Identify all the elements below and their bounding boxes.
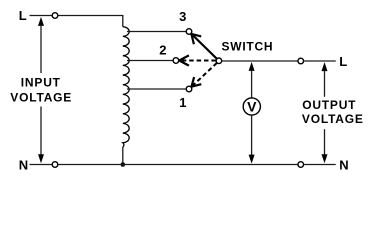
tap terminal 1 (186, 86, 192, 92)
wire tap 2 (127, 60, 173, 62)
label OUTPUT VOLTAGE (302, 98, 364, 126)
svg-text:V: V (247, 99, 257, 115)
label INPUT VOLTAGE (10, 75, 72, 104)
tap terminal 3 (186, 29, 192, 35)
svg-text:SWITCH: SWITCH (222, 40, 274, 54)
svg-text:VOLTAGE: VOLTAGE (302, 112, 364, 126)
svg-text:L: L (339, 54, 347, 69)
svg-text:1: 1 (179, 95, 186, 110)
autotransformer T1 winding (123, 27, 129, 147)
dimension arrow output voltage bottom (322, 129, 328, 163)
svg-text:VOLTAGE: VOLTAGE (10, 90, 72, 104)
wire input L lead (30, 15, 53, 17)
switch SW1 arm alternate position tap 1 (192, 63, 217, 87)
wire transformer bottom lead (122, 147, 124, 165)
wire neutral bus (58, 164, 298, 166)
voltmeter V1 connection top arrow (249, 62, 255, 98)
switch SW1 common terminal (216, 58, 222, 64)
input line terminal L (52, 13, 58, 19)
wire tap 3 (127, 31, 186, 33)
wire output L bus (222, 60, 298, 62)
switch SW1 arm selected position tap 3 (191, 34, 216, 59)
wire tap 1 (127, 88, 186, 90)
output neutral terminal N (298, 162, 304, 168)
svg-text:N: N (339, 157, 348, 172)
junction transformer to neutral (121, 162, 126, 167)
dimension arrow output voltage top (322, 62, 328, 97)
wire output N lead (304, 164, 336, 166)
svg-text:OUTPUT: OUTPUT (302, 98, 356, 112)
voltmeter V1 body (243, 98, 260, 115)
wire input N lead (30, 164, 53, 166)
output line terminal L (298, 58, 304, 64)
wire input L to transformer (58, 16, 123, 27)
dimension arrow input voltage bottom (38, 107, 44, 164)
input neutral terminal N (52, 162, 58, 168)
switch SW1 arm alternate position tap 2 (179, 55, 216, 65)
voltmeter V1 connection bottom arrow (249, 115, 255, 164)
dimension arrow input voltage top (38, 17, 44, 73)
tap terminal 2 (173, 58, 179, 64)
svg-text:2: 2 (159, 43, 166, 58)
svg-text:L: L (19, 8, 27, 23)
svg-text:N: N (19, 157, 28, 172)
wire output L lead (304, 60, 336, 62)
svg-text:3: 3 (179, 9, 186, 24)
svg-text:INPUT: INPUT (21, 75, 61, 89)
